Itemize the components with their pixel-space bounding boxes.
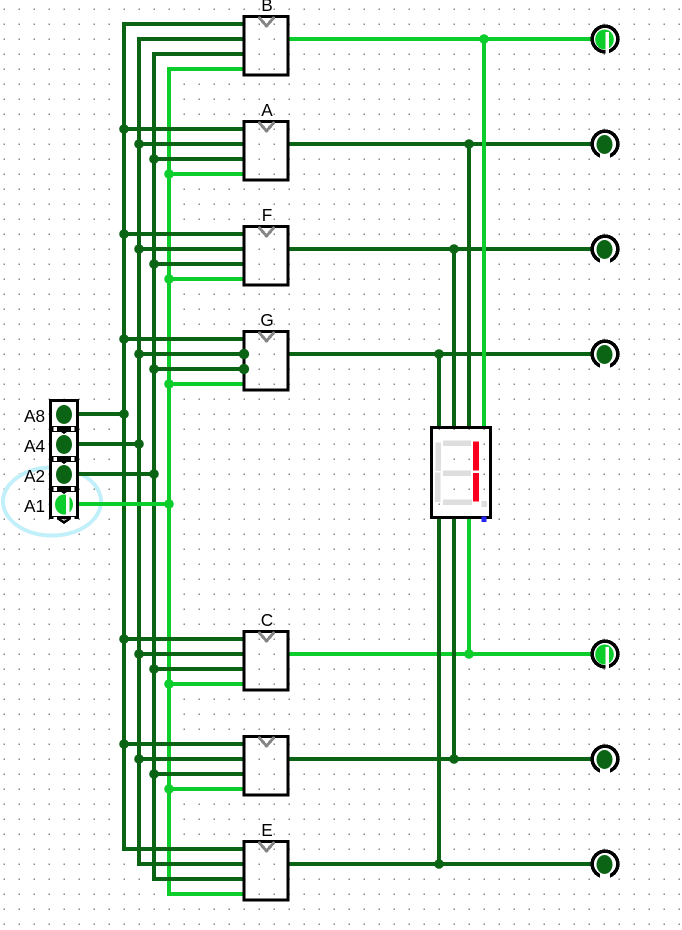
wire to UF input 1 <box>124 232 245 236</box>
junction at 169,789 <box>164 784 174 794</box>
wire UA output row <box>288 142 592 146</box>
wire seg-B vertical <box>482 39 486 429</box>
junction at 154,774 <box>149 769 159 779</box>
wire seg-D vertical <box>452 517 456 759</box>
output pin OA segment indicator <box>592 131 618 160</box>
junction at 484,39 <box>479 34 489 44</box>
wire to UE input 4 <box>167 892 245 896</box>
subcircuit UD (unlabeled) <box>244 737 288 796</box>
subcircuit UF label F <box>244 227 288 286</box>
subcircuit UC label C <box>244 632 288 691</box>
subcircuit UG label G <box>244 332 288 391</box>
wire to UB input 4 <box>167 67 245 71</box>
wire to UF input 4 <box>169 277 245 281</box>
wire to UD input 2 <box>139 757 245 761</box>
wire seg-E vertical <box>437 517 441 864</box>
junction at 439,864 <box>434 859 444 869</box>
junction at 169,279 <box>164 274 174 284</box>
wire to UG input 3 <box>154 367 245 371</box>
wire pin A8 stub <box>78 412 124 416</box>
wire bus A8 vertical <box>122 22 126 851</box>
output pin OB segment indicator <box>592 26 618 54</box>
wire to UB input 3 <box>152 52 245 56</box>
wire to UA input 1 <box>124 127 245 131</box>
junction at 124,639 <box>119 634 129 644</box>
junction at 469,654 <box>464 649 474 659</box>
junction at 469,144 <box>464 139 474 149</box>
junction at 154,474 <box>149 469 159 479</box>
subcircuit UA label A <box>244 122 288 181</box>
wire to UA input 3 <box>154 157 245 161</box>
wire seg-G vertical <box>437 354 441 429</box>
wire pin A1 stub <box>78 502 169 506</box>
wire pin A2 stub <box>78 472 154 476</box>
wire to UD input 4 <box>169 787 245 791</box>
input pin A8 state and label <box>56 405 72 424</box>
component labels overlay <box>261 0 272 15</box>
subcircuit UB label B <box>244 17 288 76</box>
wire UB output row <box>288 37 592 41</box>
junction at 169,684 <box>164 679 174 689</box>
output pin OD segment indicator <box>592 746 618 775</box>
wire to UG input 4 <box>169 382 245 386</box>
junction at 169,384 <box>164 379 174 389</box>
wire UD output row <box>288 757 592 761</box>
wire bus A2 vertical <box>152 52 156 881</box>
wire bus A4 vertical <box>137 37 141 866</box>
wire to UD input 1 <box>124 742 245 746</box>
input pin A2 state and label <box>56 465 72 484</box>
subcircuit UE label E <box>244 842 288 901</box>
output pin OF segment indicator <box>592 236 618 265</box>
wire to UA input 2 <box>139 142 245 146</box>
junction at 124,744 <box>119 739 129 749</box>
input pin squares A8 A4 A2 A1 <box>51 401 78 518</box>
output pin OE segment indicator <box>592 851 618 880</box>
wire to UG input 2 <box>139 352 245 356</box>
junction at 169,174 <box>164 169 174 179</box>
wire to UG input 1 <box>124 337 245 341</box>
wire pin A4 stub <box>78 442 139 446</box>
wire to UB input 2 <box>137 37 245 41</box>
wire to UA input 4 <box>169 172 245 176</box>
junction at 454,759 <box>449 754 459 764</box>
junction at 124,129 <box>119 124 129 134</box>
wire to UE input 2 <box>137 862 245 866</box>
wire to UC input 2 <box>139 652 245 656</box>
junction at 139,354 <box>134 349 144 359</box>
wire UE output row <box>288 862 592 866</box>
junction at 154,369 <box>149 364 159 374</box>
wire to UF input 2 <box>139 247 245 251</box>
seven-segment display U8 <box>432 428 491 523</box>
wire to UC input 3 <box>154 667 245 671</box>
junction at 139,249 <box>134 244 144 254</box>
junction at UG pin 354 <box>239 349 249 359</box>
input pin facing notches <box>54 427 75 522</box>
junction at 139,759 <box>134 754 144 764</box>
wire to UB input 1 <box>122 22 245 26</box>
junction at 124,414 <box>119 409 129 419</box>
wire seg-F vertical <box>452 249 456 429</box>
junction at 139,654 <box>134 649 144 659</box>
wire bus A1 vertical <box>167 67 171 896</box>
junction at 454,249 <box>449 244 459 254</box>
output pin OC segment indicator <box>592 641 618 669</box>
junction at 124,339 <box>119 334 129 344</box>
junction at 154,159 <box>149 154 159 164</box>
junction at 154,669 <box>149 664 159 674</box>
wire seg-A vertical <box>467 144 471 429</box>
wire to UF input 3 <box>154 262 245 266</box>
selection halo around pin A1 <box>3 468 101 536</box>
wire to UC input 1 <box>124 637 245 641</box>
wire seg-C vertical <box>467 517 471 654</box>
wire to UE input 1 <box>122 847 245 851</box>
output pin OG segment indicator <box>592 341 618 370</box>
input pin A4 state and label <box>56 435 72 454</box>
wire to UC input 4 <box>169 682 245 686</box>
wire UC output row <box>288 652 592 656</box>
wire UG output row <box>288 352 592 356</box>
input pin A1 state and label <box>55 495 73 515</box>
junction at 139,444 <box>134 439 144 449</box>
wire to UD input 3 <box>154 772 245 776</box>
wire to UE input 3 <box>152 877 245 881</box>
junction at 439,354 <box>434 349 444 359</box>
junction at 124,234 <box>119 229 129 239</box>
junction at 139,144 <box>134 139 144 149</box>
junction at 154,264 <box>149 259 159 269</box>
wire UF output row <box>288 247 592 251</box>
junction at UG pin 369 <box>239 364 249 374</box>
junction at 169,504 <box>164 499 174 509</box>
